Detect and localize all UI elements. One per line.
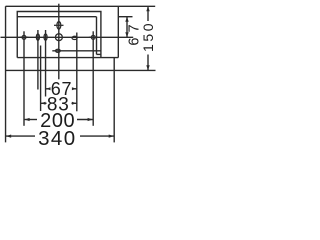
svg-text:340: 340 [38, 127, 76, 149]
svg-text:150: 150 [140, 21, 156, 52]
